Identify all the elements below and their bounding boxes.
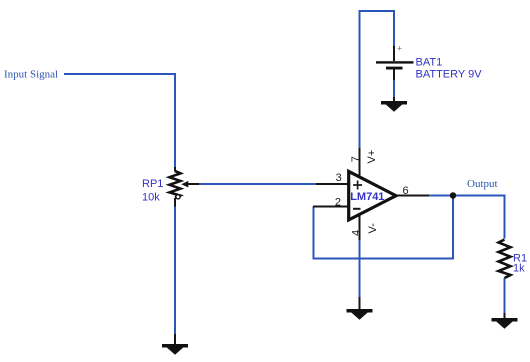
svg-text:V+: V+ — [366, 150, 378, 164]
svg-text:V-: V- — [367, 223, 379, 234]
svg-text:Output: Output — [467, 178, 498, 190]
svg-text:BAT1: BAT1 — [416, 57, 443, 69]
svg-text:4: 4 — [351, 230, 363, 236]
svg-text:Input Signal: Input Signal — [4, 69, 58, 81]
svg-text:6: 6 — [403, 185, 409, 197]
svg-text:LM741: LM741 — [350, 191, 384, 203]
svg-text:1k: 1k — [513, 263, 525, 275]
svg-text:7: 7 — [350, 156, 362, 162]
svg-text:2: 2 — [335, 197, 341, 209]
svg-text:BATTERY 9V: BATTERY 9V — [416, 69, 483, 81]
svg-text:RP1: RP1 — [142, 178, 163, 190]
svg-text:10k: 10k — [142, 192, 160, 204]
svg-text:3: 3 — [336, 172, 342, 184]
svg-text:+: + — [397, 44, 403, 55]
